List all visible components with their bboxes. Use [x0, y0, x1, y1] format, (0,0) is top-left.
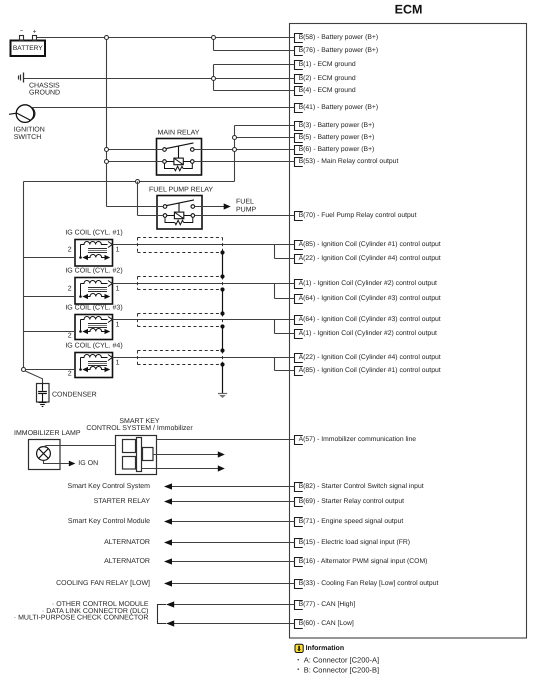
svg-text:•: • — [297, 667, 299, 673]
svg-text:A(57) - Immobilizer communicat: A(57) - Immobilizer communication line — [299, 436, 417, 443]
svg-text:B(82) - Starter Control Switch: B(82) - Starter Control Switch signal in… — [299, 483, 424, 490]
svg-text:B(58) - Battery power (B+): B(58) - Battery power (B+) — [299, 34, 379, 41]
svg-text:STARTER RELAY: STARTER RELAY — [94, 498, 151, 505]
svg-text:B(6) - Battery power (B+): B(6) - Battery power (B+) — [299, 146, 375, 153]
svg-text:A(1) - Ignition Coil (Cylinder: A(1) - Ignition Coil (Cylinder #2) contr… — [299, 280, 437, 287]
svg-text:B(4) - ECM ground: B(4) - ECM ground — [299, 87, 356, 94]
svg-text:1: 1 — [116, 246, 120, 253]
svg-text:BATTERY: BATTERY — [13, 45, 43, 52]
svg-text:B(53) - Main Relay control out: B(53) - Main Relay control output — [299, 158, 399, 165]
svg-text:CHASSIS: CHASSIS — [29, 82, 60, 89]
svg-text:B: Connector [C200-B]: B: Connector [C200-B] — [304, 665, 379, 674]
svg-text:B(5) - Battery power (B+): B(5) - Battery power (B+) — [299, 134, 375, 141]
svg-text:CONDENSER: CONDENSER — [52, 391, 97, 398]
svg-text:B(69) - Starter Relay control: B(69) - Starter Relay control output — [299, 498, 405, 505]
svg-text:Smart Key Control Module: Smart Key Control Module — [68, 517, 150, 525]
svg-text:ECM: ECM — [395, 3, 423, 17]
svg-text:Smart Key Control System: Smart Key Control System — [68, 482, 151, 490]
svg-text:COOLING FAN RELAY [LOW]: COOLING FAN RELAY [LOW] — [56, 579, 150, 587]
svg-text:GROUND: GROUND — [29, 89, 60, 96]
svg-text:ALTERNATOR: ALTERNATOR — [104, 539, 150, 546]
svg-text:IG COIL (CYL. #1): IG COIL (CYL. #1) — [65, 229, 122, 237]
svg-text:2: 2 — [68, 286, 72, 293]
svg-text:CONTROL SYSTEM / Immobilizer: CONTROL SYSTEM / Immobilizer — [86, 424, 193, 432]
svg-text:SWITCH: SWITCH — [14, 134, 42, 141]
svg-text:A(64) - Ignition Coil (Cylinde: A(64) - Ignition Coil (Cylinder #3) cont… — [299, 316, 441, 323]
svg-text:MAIN RELAY: MAIN RELAY — [158, 130, 200, 137]
svg-text:IMMOBILIZER LAMP: IMMOBILIZER LAMP — [14, 430, 81, 437]
svg-text:B(16) - Alternator PWM signal: B(16) - Alternator PWM signal input (COM… — [299, 558, 428, 565]
svg-text:B(33) - Cooling Fan Relay [Low: B(33) - Cooling Fan Relay [Low] control … — [299, 580, 439, 587]
svg-text:B(77) - CAN [High]: B(77) - CAN [High] — [299, 601, 356, 608]
svg-text:FUEL PUMP RELAY: FUEL PUMP RELAY — [149, 187, 213, 194]
svg-text:A(1) - Ignition Coil (Cylinder: A(1) - Ignition Coil (Cylinder #2) contr… — [299, 330, 437, 337]
svg-text:A: Connector [C200-A]: A: Connector [C200-A] — [304, 656, 379, 665]
svg-text:IG ON: IG ON — [78, 460, 98, 467]
svg-text:2: 2 — [68, 333, 72, 340]
svg-text:A(85) - Ignition Coil (Cylinde: A(85) - Ignition Coil (Cylinder #1) cont… — [299, 367, 441, 374]
svg-text:B(70) - Fuel Pump Relay contro: B(70) - Fuel Pump Relay control output — [299, 212, 417, 219]
svg-text:B(60) - CAN [Low]: B(60) - CAN [Low] — [299, 620, 354, 627]
svg-text:IG COIL (CYL. #4): IG COIL (CYL. #4) — [65, 342, 122, 350]
svg-text:1: 1 — [116, 359, 120, 366]
svg-text:ALTERNATOR: ALTERNATOR — [104, 558, 150, 565]
svg-text:1: 1 — [116, 285, 120, 292]
svg-text:B(76) - Battery power (B+): B(76) - Battery power (B+) — [299, 47, 379, 54]
svg-text:B(71) - Engine speed signal ou: B(71) - Engine speed signal output — [299, 518, 404, 525]
svg-text:· DATA LINK CONNECTOR (DLC): · DATA LINK CONNECTOR (DLC) — [42, 607, 149, 615]
svg-text:−: − — [20, 29, 24, 35]
svg-text:B(2) - ECM ground: B(2) - ECM ground — [299, 75, 356, 82]
svg-text:Information: Information — [306, 644, 345, 652]
svg-text:B(3) - Battery power (B+): B(3) - Battery power (B+) — [299, 122, 375, 129]
svg-text:2: 2 — [68, 371, 72, 378]
svg-text:PUMP: PUMP — [236, 206, 257, 213]
svg-text:FUEL: FUEL — [236, 198, 254, 205]
svg-text:A(85) - Ignition Coil (Cylinde: A(85) - Ignition Coil (Cylinder #1) cont… — [299, 241, 441, 248]
svg-text:B(15) - Electric load signal i: B(15) - Electric load signal input (FR) — [299, 539, 410, 546]
svg-text:SMART KEY: SMART KEY — [119, 418, 160, 425]
svg-text:· MULTI-PURPOSE CHECK CONNECTO: · MULTI-PURPOSE CHECK CONNECTOR — [14, 615, 149, 622]
svg-text:IG COIL (CYL. #3): IG COIL (CYL. #3) — [65, 304, 122, 312]
svg-text:2: 2 — [68, 247, 72, 254]
svg-text:A(64) - Ignition Coil (Cylinde: A(64) - Ignition Coil (Cylinder #3) cont… — [299, 295, 441, 302]
svg-text:IG COIL (CYL. #2): IG COIL (CYL. #2) — [65, 267, 122, 275]
svg-text:A(22) - Ignition Coil (Cylinde: A(22) - Ignition Coil (Cylinder #4) cont… — [299, 354, 441, 361]
svg-text:B(41) - Battery power (B+): B(41) - Battery power (B+) — [299, 104, 379, 111]
svg-text:IGNITION: IGNITION — [14, 126, 45, 133]
svg-text:A(22) - Ignition Coil (Cylinde: A(22) - Ignition Coil (Cylinder #4) cont… — [299, 255, 441, 262]
svg-text:1: 1 — [116, 321, 120, 328]
svg-text:•: • — [297, 658, 299, 664]
svg-text:+: + — [33, 28, 37, 35]
svg-text:B(1) - ECM ground: B(1) - ECM ground — [299, 61, 356, 68]
